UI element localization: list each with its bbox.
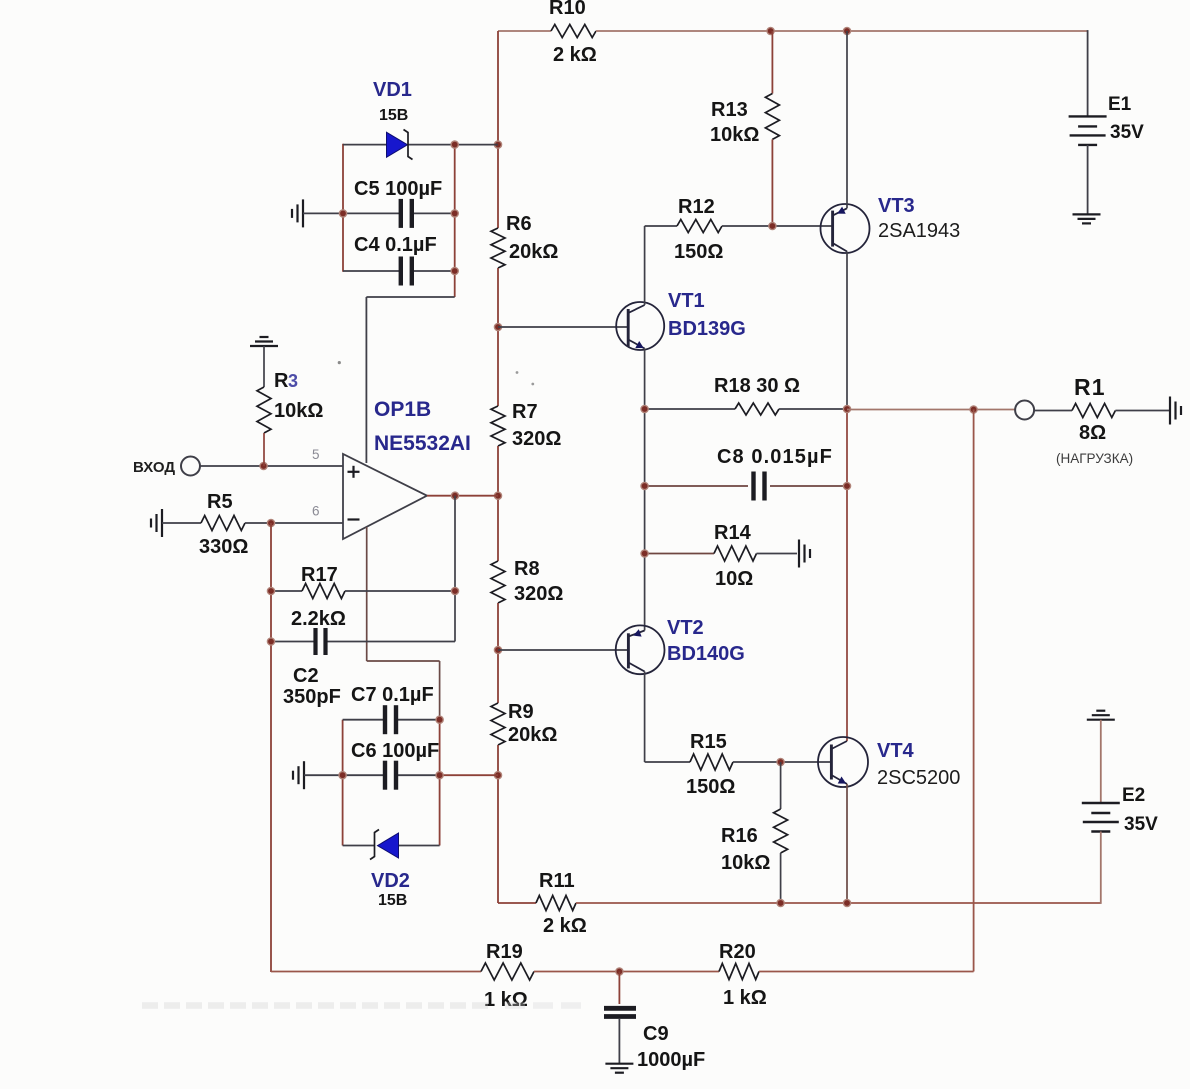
capacitor C2 xyxy=(313,628,317,655)
ground right of R1 xyxy=(1169,397,1171,425)
resistor R3 xyxy=(257,387,271,433)
wire E2 bottom stem xyxy=(1100,832,1102,904)
junction R5 / feedback xyxy=(267,519,274,526)
junction R18 left xyxy=(641,405,648,412)
ground below C9 xyxy=(605,1063,633,1065)
wire top +35V rail left segment xyxy=(498,30,551,32)
wire feedback vertical x455 xyxy=(454,496,456,642)
wire R14 row left xyxy=(645,553,714,555)
svg-text:R12: R12 xyxy=(678,196,715,218)
svg-text:VT3: VT3 xyxy=(878,195,915,217)
svg-text:15B: 15B xyxy=(379,107,408,124)
ground above E2 xyxy=(1087,719,1115,721)
svg-text:VT1: VT1 xyxy=(668,290,705,312)
junction output / R20 branch xyxy=(970,406,977,413)
wire R18 row right xyxy=(779,408,847,410)
svg-text:BD139G: BD139G xyxy=(668,318,746,340)
svg-text:2SC5200: 2SC5200 xyxy=(877,767,960,789)
svg-text:150Ω: 150Ω xyxy=(674,241,723,263)
capacitor C6 xyxy=(383,761,387,790)
svg-text:C5 100µF: C5 100µF xyxy=(354,178,442,200)
resistor R15 xyxy=(690,754,733,770)
resistor R12 xyxy=(677,220,722,233)
svg-text:R19: R19 xyxy=(486,941,523,963)
wire top +35V rail right segment xyxy=(596,30,1088,32)
junction central / op-amp output xyxy=(494,492,501,499)
wire central line top xyxy=(497,31,499,228)
wire output row xyxy=(847,409,1015,411)
wire central line bottom xyxy=(497,745,499,903)
svg-text:C6 100µF: C6 100µF xyxy=(351,740,439,762)
wire VT1 base xyxy=(498,326,628,328)
wire R12 row right xyxy=(722,225,833,227)
resistor R8 xyxy=(491,561,505,603)
wire C7 block left rail xyxy=(342,720,344,846)
wire R17 row right xyxy=(345,590,455,592)
junction top rail / R13 xyxy=(767,27,774,34)
wire R15 row left xyxy=(645,761,690,763)
wire R12 row left xyxy=(645,225,677,227)
wire R5 to op-amp - xyxy=(245,522,343,524)
svg-text:C8 0.015µF: C8 0.015µF xyxy=(717,446,833,468)
junction R11 / R16 xyxy=(777,899,784,906)
wire R3 top lead xyxy=(263,346,265,387)
junction R14 left xyxy=(641,550,648,557)
svg-text:C9: C9 xyxy=(643,1023,669,1045)
wire R16 top lead xyxy=(780,762,782,809)
wire C9 top lead xyxy=(618,972,620,1005)
resistor R18 xyxy=(735,403,779,415)
resistor R9 xyxy=(491,703,505,745)
svg-text:R7: R7 xyxy=(512,401,538,423)
wire R14 to ground xyxy=(757,553,798,555)
svg-text:8Ω: 8Ω xyxy=(1079,422,1106,444)
svg-text:35V: 35V xyxy=(1110,122,1144,143)
wire R20 right segment xyxy=(759,971,974,973)
wire R13 top lead xyxy=(771,31,773,94)
junction output / feedback branch xyxy=(451,492,458,499)
junction C8 right xyxy=(843,482,850,489)
transistor VT3 xyxy=(821,204,870,253)
junction VD1 net / central line xyxy=(494,141,501,148)
wire VD1 row xyxy=(343,144,387,146)
wire R19 row left xyxy=(271,971,481,973)
svg-text:20kΩ: 20kΩ xyxy=(508,724,557,746)
wire R13 bottom lead xyxy=(771,139,773,226)
svg-text:R20: R20 xyxy=(719,941,756,963)
input terminal circle xyxy=(181,457,200,476)
junction C6 left rail xyxy=(339,772,346,779)
svg-text:VD2: VD2 xyxy=(371,870,410,892)
junction R17 right xyxy=(451,587,458,594)
junction C4 right rail xyxy=(451,267,458,274)
wire VT2 base xyxy=(498,649,627,651)
battery E2 xyxy=(1082,802,1120,804)
svg-text:R1: R1 xyxy=(1074,374,1106,400)
wire R19-R20 segment xyxy=(534,971,719,973)
svg-text:2 kΩ: 2 kΩ xyxy=(543,915,587,937)
svg-text:10Ω: 10Ω xyxy=(715,568,753,590)
svg-text:NE5532AI: NE5532AI xyxy=(374,432,471,455)
svg-text:330Ω: 330Ω xyxy=(199,536,248,558)
svg-text:350pF: 350pF xyxy=(283,686,341,708)
svg-text:R16: R16 xyxy=(721,825,758,847)
svg-text:R18 30 Ω: R18 30 Ω xyxy=(714,375,800,397)
op-amp OP1B xyxy=(343,454,427,539)
resistor R7 xyxy=(491,406,505,446)
wire central line R6-R7 xyxy=(497,268,499,406)
svg-text:R9: R9 xyxy=(508,701,534,723)
svg-text:R15: R15 xyxy=(690,731,727,753)
svg-text:C2: C2 xyxy=(293,665,319,687)
wire R11 row left xyxy=(498,902,536,904)
svg-text:R11: R11 xyxy=(539,870,575,892)
wire C9 bottom lead xyxy=(618,1019,620,1063)
junction R17 left xyxy=(267,587,274,594)
transistor VT1 xyxy=(616,302,664,350)
ground left of C5 xyxy=(302,199,304,227)
decor xyxy=(142,1002,586,1009)
svg-text:VD1: VD1 xyxy=(373,79,412,101)
wire R11 row right xyxy=(576,902,1101,904)
svg-text:R14: R14 xyxy=(714,522,752,544)
svg-text:(НАГРУЗКА): (НАГРУЗКА) xyxy=(1056,451,1133,466)
resistor R13 xyxy=(765,94,779,140)
svg-text:R5: R5 xyxy=(207,491,233,513)
svg-text:150Ω: 150Ω xyxy=(686,776,735,798)
svg-text:VT2: VT2 xyxy=(667,617,704,639)
ground left of R5 xyxy=(161,509,163,537)
junction top rail / VT3 emitter xyxy=(843,27,850,34)
junction R12/R13 xyxy=(769,222,776,229)
battery E1 xyxy=(1069,115,1107,117)
zener diode VD1 xyxy=(387,132,408,157)
resistor R19 xyxy=(481,963,534,980)
junction R15 / R16 xyxy=(777,758,784,765)
junction C8 left xyxy=(641,482,648,489)
resistor R11 xyxy=(536,896,576,911)
svg-text:10kΩ: 10kΩ xyxy=(710,124,759,146)
wire R17 row left xyxy=(271,590,302,592)
transistor VT2 xyxy=(616,625,665,674)
capacitor C8 xyxy=(751,472,755,501)
output terminal circle xyxy=(1015,401,1034,420)
resistor R1 load xyxy=(1072,404,1115,418)
junction central / C6 row xyxy=(494,772,501,779)
wire E2 top stem xyxy=(1100,720,1102,803)
wire R1 to ground xyxy=(1115,410,1170,412)
svg-text:R13: R13 xyxy=(711,99,748,121)
zener diode VD2 xyxy=(378,833,399,858)
svg-text:OP1B: OP1B xyxy=(374,398,431,421)
svg-text:5: 5 xyxy=(312,447,320,462)
transistor VT4 xyxy=(818,737,868,787)
junction C7 right rail xyxy=(436,716,443,723)
junction C9 top xyxy=(616,968,623,975)
svg-text:R: R xyxy=(274,370,289,392)
svg-text:10kΩ: 10kΩ xyxy=(274,400,323,422)
ground below E1 xyxy=(1073,213,1101,215)
svg-text:6: 6 xyxy=(312,504,320,519)
wire C7 block right rail xyxy=(439,720,441,846)
svg-text:20kΩ: 20kΩ xyxy=(509,241,558,263)
wire R3 bottom lead xyxy=(263,433,265,466)
svg-text:320Ω: 320Ω xyxy=(512,428,561,450)
decor xyxy=(516,371,519,374)
svg-text:R8: R8 xyxy=(514,558,540,580)
resistor R20 xyxy=(719,964,759,980)
svg-text:2.2kΩ: 2.2kΩ xyxy=(291,608,346,630)
capacitor C9 xyxy=(604,1006,636,1011)
svg-text:35V: 35V xyxy=(1124,814,1158,835)
wire op-amp output xyxy=(427,495,498,497)
junction C5 right rail xyxy=(451,210,458,217)
svg-text:2SA1943: 2SA1943 xyxy=(878,220,960,242)
resistor R5 xyxy=(201,516,245,531)
wire C2 row xyxy=(271,641,314,643)
junction C5 left rail xyxy=(339,210,346,217)
svg-text:R10: R10 xyxy=(549,0,586,19)
wire C8 row xyxy=(645,485,748,487)
svg-text:VT4: VT4 xyxy=(877,740,915,762)
wire C4 row xyxy=(343,270,400,272)
wire VD1 block right rail xyxy=(454,144,456,297)
svg-text:15B: 15B xyxy=(378,892,407,909)
wire op-amp V- pin hook xyxy=(366,527,368,661)
ground left of C6 xyxy=(303,761,305,789)
capacitor C4 xyxy=(399,257,403,286)
capacitor C7 xyxy=(383,705,387,734)
svg-text:E1: E1 xyxy=(1108,94,1132,115)
svg-text:R6: R6 xyxy=(506,213,532,235)
wire C6 row xyxy=(304,774,384,776)
svg-text:3: 3 xyxy=(288,371,298,391)
svg-text:C4 0.1µF: C4 0.1µF xyxy=(354,234,437,256)
resistor R6 xyxy=(491,228,505,268)
capacitor C5 xyxy=(399,199,403,228)
svg-text:C7 0.1µF: C7 0.1µF xyxy=(351,684,434,706)
svg-text:BD140G: BD140G xyxy=(667,643,745,665)
junction central / VT2 base xyxy=(494,646,501,653)
resistor R17 xyxy=(302,584,345,599)
junction input / R3 xyxy=(260,462,267,469)
wire to R1 xyxy=(1034,410,1072,412)
svg-text:10kΩ: 10kΩ xyxy=(721,852,770,874)
wire central line R7-R8 xyxy=(497,446,499,561)
wire R15 row right xyxy=(733,761,831,763)
junction VD1 row / right rail xyxy=(451,141,458,148)
svg-text:ВХОД: ВХОД xyxy=(133,459,175,476)
wire VD1 block left rail xyxy=(342,144,344,272)
wire central line R8-R9 xyxy=(497,603,499,703)
junction central / VT1 base xyxy=(494,323,501,330)
wire R5 left xyxy=(162,522,201,524)
junction R11 / VT4 emitter xyxy=(843,899,850,906)
resistor R16 xyxy=(774,809,788,853)
wire C5 row xyxy=(303,212,400,214)
svg-text:1 kΩ: 1 kΩ xyxy=(723,987,767,1009)
wire inverting node vertical x271 xyxy=(270,523,272,972)
resistor R14 xyxy=(714,546,757,561)
junction R18 right xyxy=(843,405,850,412)
junction C2 left xyxy=(267,638,274,645)
svg-text:R17: R17 xyxy=(301,564,338,586)
resistor R10 xyxy=(551,25,596,38)
ground right of R14 xyxy=(798,540,800,568)
ground above R3 xyxy=(250,345,278,347)
svg-text:320Ω: 320Ω xyxy=(514,583,563,605)
svg-text:2 kΩ: 2 kΩ xyxy=(553,44,597,66)
wire R16 bottom lead xyxy=(780,853,782,903)
wire V+ hook to op-amp xyxy=(366,296,454,298)
wire C7 row xyxy=(343,719,384,721)
wire input to op-amp + xyxy=(200,465,343,467)
svg-text:1000µF: 1000µF xyxy=(637,1049,705,1071)
svg-text:E2: E2 xyxy=(1122,785,1145,806)
wire VD2 row xyxy=(343,845,375,847)
junction C6 right rail xyxy=(436,772,443,779)
wire R18 row left xyxy=(645,408,735,410)
